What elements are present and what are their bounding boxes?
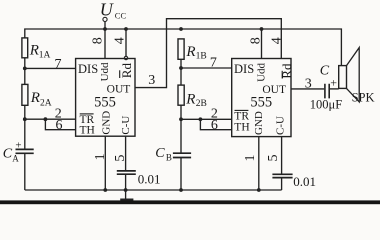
svg-text:1A: 1A: [39, 51, 51, 61]
node: bus / pin4 U1: [124, 27, 128, 31]
node: gnd / CB: [179, 188, 183, 192]
label Rd overline U1: [119, 70, 121, 78]
node: pin2 junction B: [179, 117, 183, 121]
capacitor CB plates: [173, 153, 191, 157]
ground bus: [25, 189, 282, 191]
wire: pin 2 U1: [25, 118, 76, 120]
svg-text:U: U: [100, 0, 114, 20]
svg-text:1: 1: [243, 155, 258, 162]
capacitor 0.01 B plates: [272, 174, 292, 177]
svg-text:R: R: [185, 44, 195, 60]
svg-text:CC: CC: [115, 11, 127, 21]
svg-text:0.01: 0.01: [293, 174, 316, 189]
svg-text:0.01: 0.01: [138, 172, 161, 187]
wire: out2 to capacitor C: [291, 88, 324, 90]
wire: pin 5 U1 to cap: [125, 136, 127, 171]
terminal Ucc stub: [104, 22, 106, 29]
svg-text:TH: TH: [234, 122, 249, 134]
svg-text:C: C: [155, 146, 165, 161]
svg-text:+: +: [330, 75, 337, 89]
svg-text:7: 7: [210, 56, 217, 71]
svg-text:Rd: Rd: [119, 63, 134, 79]
svg-text:1B: 1B: [196, 52, 207, 62]
resistor R2B body: [178, 85, 184, 105]
svg-text:7: 7: [55, 57, 62, 72]
wire: pin 1 U1 gnd: [104, 136, 106, 190]
wire: R2A to CA: [24, 105, 26, 149]
wire: CB to ground bus: [180, 158, 182, 191]
node: bus / R1B top: [179, 27, 183, 31]
svg-text:5: 5: [113, 155, 128, 162]
svg-text:R: R: [30, 90, 40, 106]
node: R1B/R2B/pin7 U2: [179, 66, 183, 70]
svg-text:C: C: [320, 64, 330, 79]
svg-text:A: A: [12, 154, 19, 164]
capacitor CA plates: [16, 149, 34, 153]
svg-text:8: 8: [248, 37, 263, 44]
svg-text:C: C: [3, 146, 13, 161]
op-amp U2 555 body: [232, 59, 291, 137]
capacitor 0.01 A plates: [117, 171, 136, 174]
svg-text:Rd: Rd: [279, 63, 294, 79]
wire: pin 7 U1: [25, 67, 76, 69]
wire: CA to ground bus: [24, 153, 26, 190]
wire: Ucc top bus with corners down to R1A and speaker: [25, 29, 342, 66]
svg-text:C-U: C-U: [275, 116, 287, 135]
speaker SPK cone: [347, 48, 360, 102]
svg-text:3: 3: [148, 73, 155, 88]
svg-text:4: 4: [112, 37, 127, 44]
label TR overline U1: [80, 113, 94, 115]
resistor R1A body: [22, 38, 28, 58]
capacitor C plates: [325, 84, 329, 99]
svg-text:6: 6: [211, 118, 218, 133]
wire: cap 0.01 A to ground symbol: [125, 174, 127, 199]
terminal Ucc circle: [103, 17, 107, 21]
speaker SPK body: [339, 66, 347, 89]
wire: out1 to pin4 U2: [135, 19, 281, 88]
svg-text:Udd: Udd: [99, 62, 111, 81]
wire: cap 0.01 B to ground bus: [281, 178, 283, 190]
node: pin6 branch A: [44, 117, 48, 121]
svg-text:5: 5: [266, 155, 281, 162]
svg-text:B: B: [166, 153, 172, 163]
bubble: pin 4 U1 reset: [124, 56, 127, 59]
svg-text:1: 1: [93, 153, 108, 160]
wire: pin 7 U2: [181, 67, 232, 69]
op-amp U1 555 body: [76, 59, 135, 137]
wire: pin 5 U2 to cap: [281, 137, 283, 174]
node: bus / pin8 U1: [103, 27, 107, 31]
svg-text:GND: GND: [253, 111, 265, 135]
label TR overline U2: [235, 109, 249, 111]
wire: pin 8 U2: [261, 29, 263, 59]
node: gnd / pin1 U1: [103, 188, 107, 192]
resistor R1B body: [178, 39, 184, 59]
node: pin2 junction A: [23, 117, 27, 121]
node: gnd / pin1 U2: [257, 188, 261, 192]
svg-text:2B: 2B: [196, 99, 207, 109]
wire: R2B to CB: [180, 105, 182, 153]
svg-text:6: 6: [56, 118, 63, 133]
svg-text:Udd: Udd: [255, 62, 267, 81]
svg-text:+: +: [15, 139, 21, 151]
svg-text:DIS: DIS: [78, 62, 98, 76]
node: bus / pin8 U2: [260, 27, 264, 31]
svg-text:100μF: 100μF: [310, 98, 342, 112]
wire: pin 4 U1: [125, 29, 127, 56]
node: R1A/R2A/pin7 U1: [23, 67, 27, 71]
resistor R2A body: [22, 84, 28, 105]
svg-text:GND: GND: [100, 111, 112, 135]
svg-text:2A: 2A: [40, 98, 52, 108]
wire: R1A to R2A: [24, 58, 26, 85]
svg-text:SPK: SPK: [352, 91, 375, 105]
node: pin6 branch B: [199, 117, 203, 121]
svg-text:555: 555: [94, 94, 116, 110]
svg-text:555: 555: [250, 94, 272, 110]
ground symbol: [120, 199, 133, 201]
wire: pin 8 U1: [104, 29, 106, 59]
svg-text:R: R: [29, 43, 39, 59]
svg-text:C-U: C-U: [120, 116, 132, 135]
wire: capacitor C to speaker: [329, 88, 339, 90]
svg-text:DIS: DIS: [234, 62, 254, 76]
svg-text:3: 3: [305, 77, 312, 92]
wire: pin 6 U2: [200, 119, 231, 129]
wire: R1B to R2B: [180, 59, 182, 85]
svg-text:4: 4: [269, 37, 284, 44]
bottom border bar: [0, 200, 380, 204]
svg-text:TH: TH: [80, 125, 95, 137]
wire: pin 6 U1: [45, 119, 75, 130]
wire: pin 2 U2: [181, 118, 232, 120]
label Rd overline U2: [281, 71, 283, 79]
svg-text:R: R: [185, 92, 195, 108]
node: gnd / cap 0.01 A: [124, 188, 128, 192]
wire: pin 1 U2 gnd: [258, 137, 260, 190]
svg-text:8: 8: [91, 37, 106, 44]
